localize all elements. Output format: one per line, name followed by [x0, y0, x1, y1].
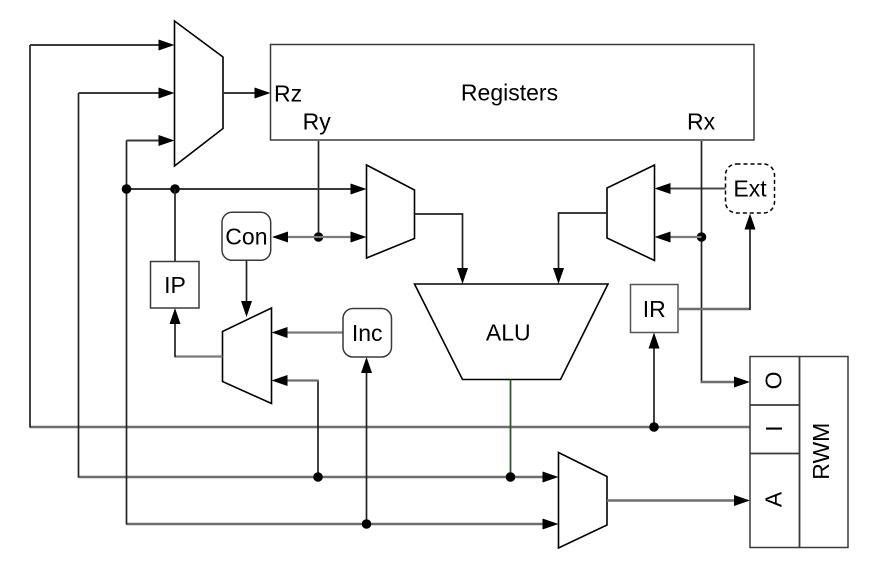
wire mux M5 output to RWM A port — [607, 495, 750, 506]
label O (RWM output port) — [761, 371, 787, 389]
wire net3 horizontal bus (to mux M5 input 2) — [127, 519, 559, 530]
svg-text:Rx: Rx — [687, 108, 716, 134]
node N2B junction (ALU result joins net2) — [506, 472, 516, 482]
mux M3 (ALU right operand multiplexer) — [607, 165, 655, 261]
svg-text:Ry: Ry — [303, 108, 332, 134]
wire node NY to mux M2 input 2 (arrow into M2) — [319, 232, 367, 243]
wire net3 vertical left-inner — [126, 141, 128, 525]
mux M4 (IP source multiplexer) — [223, 308, 272, 404]
wire net2 stub into mux M1 input 2 — [79, 88, 175, 99]
wire mux M4 output to IP input — [170, 308, 223, 357]
svg-text:I: I — [761, 425, 787, 431]
wire net3 tap up to Inc input — [361, 357, 372, 524]
wire net2 horizontal bus (to mux M5 input 1) — [79, 472, 559, 483]
wire net1 tap up to IR input — [649, 333, 660, 428]
svg-text:IP: IP — [164, 272, 186, 298]
svg-text:Ext: Ext — [733, 176, 767, 202]
svg-text:Con: Con — [225, 223, 267, 249]
wire mux M2 output to ALU input A — [415, 214, 469, 284]
label Ext — [733, 176, 767, 202]
svg-text:ALU: ALU — [486, 320, 531, 346]
svg-text:IR: IR — [643, 296, 666, 322]
label Ry — [303, 108, 332, 134]
wire net3 stub into mux M1 input 3 — [127, 135, 175, 146]
wire node NY to Con input (arrow into Con) — [272, 232, 319, 243]
label IP — [164, 272, 186, 298]
label Rx — [687, 108, 716, 134]
label IR — [643, 296, 666, 322]
label ALU — [486, 320, 531, 346]
node NX junction (Rx tap to mux M3) — [697, 232, 707, 242]
label A (RWM address port) — [760, 491, 786, 507]
register IR — [631, 285, 679, 333]
memory RWM port column divider — [799, 357, 801, 548]
register IP — [151, 262, 200, 309]
wire ALU result (green) down to net2 — [510, 380, 512, 478]
label Inc — [352, 320, 383, 346]
svg-text:Rz: Rz — [274, 80, 302, 106]
mux M1 (Rz write-select multiplexer) — [175, 21, 224, 166]
wire net1 stub into mux M1 input 1 — [30, 40, 175, 51]
label Registers — [461, 80, 558, 106]
svg-text:O: O — [761, 371, 787, 389]
label RWM — [808, 423, 834, 480]
svg-text:Registers: Registers — [461, 80, 558, 106]
block Con (condition logic) — [222, 212, 271, 260]
wire net1 horizontal bus (to RWM I port) — [30, 426, 750, 428]
wire IR output to Ext (vertical, arrow into Ext) — [745, 214, 756, 311]
mux M2 (ALU left operand multiplexer) — [367, 165, 415, 258]
wire Inc output to mux M4 input 1 — [272, 327, 344, 338]
node N4A junction (net4 taps net3 vertical) — [122, 184, 132, 194]
node NY junction (Ry / Con / mux M2) — [314, 232, 324, 242]
wire Ext output to mux M3 input 1 — [655, 183, 726, 194]
label Rz — [274, 80, 302, 106]
block Inc (incrementer) — [343, 309, 392, 358]
node N1A junction (net1 tap to IR) — [649, 422, 659, 432]
memory RWM O/I divider — [750, 404, 800, 406]
wire net2 tap to mux M4 input 2 — [272, 375, 319, 477]
alu ALU — [415, 284, 609, 380]
label I (RWM input port) — [761, 425, 787, 431]
svg-text:Inc: Inc — [352, 320, 383, 346]
node N3A junction (net3 tap to Inc) — [362, 519, 372, 529]
memory RWM I/A divider — [750, 453, 800, 455]
wire IR output to Ext (horizontal) — [679, 308, 751, 310]
svg-text:A: A — [760, 491, 786, 507]
wire Ry output down to node NY — [318, 141, 320, 237]
wire Rx output down (vertical) — [701, 141, 703, 382]
wire Con select output onto mux M4 — [241, 261, 252, 318]
mux M5 (RWM address multiplexer) — [559, 453, 608, 549]
label Con — [225, 223, 267, 249]
wire Rx to RWM O port (horizontal) — [701, 377, 751, 388]
node N2A junction (net2 tap at y477) — [313, 472, 323, 482]
block Ext (sign extender) — [726, 164, 775, 213]
wire net1 vertical left-outer — [29, 45, 31, 428]
memory RWM outer box — [750, 357, 848, 548]
node N4B junction (net4 tap to IP) — [170, 184, 180, 194]
svg-text:RWM: RWM — [808, 423, 834, 480]
wire mux M1 output to Registers Rz — [223, 88, 271, 99]
wire node N4B down to IP input — [174, 189, 176, 262]
wire node NX to mux M3 input 2 — [655, 232, 702, 243]
wire net4 bus (V3 junction to mux M2 input 1) — [127, 184, 367, 195]
register file Registers — [271, 45, 755, 141]
wire net2 vertical left-middle — [78, 93, 80, 478]
wire mux M3 output to ALU input B — [553, 213, 607, 284]
